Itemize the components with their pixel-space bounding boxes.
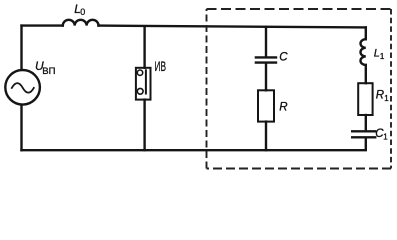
wire: R branch lower — [265, 122, 267, 151]
resistor R — [258, 90, 274, 121]
wire: top bus left segment — [22, 24, 63, 26]
capacitor C bottom plate — [256, 61, 276, 63]
svg-text:ВП: ВП — [42, 66, 55, 77]
wire: IV branch upper — [143, 26, 145, 68]
capacitor C top plate — [256, 56, 276, 58]
resistor R1 — [358, 83, 372, 115]
wire: right branch corner — [365, 27, 367, 39]
dashed boundary box left — [206, 9, 208, 169]
spark device IV body — [136, 68, 151, 100]
wire: left side upper — [20, 26, 22, 70]
svg-text:1: 1 — [384, 94, 389, 103]
svg-text:R: R — [279, 101, 287, 113]
voltage source sine wave — [12, 83, 34, 93]
svg-text:C: C — [279, 51, 288, 63]
dashed boundary box top — [207, 8, 392, 10]
capacitor C1 top plate — [352, 130, 375, 132]
voltage source U_vp circle — [5, 70, 40, 105]
inductor L1 — [360, 39, 365, 65]
wire: C to R connector — [265, 64, 267, 91]
svg-text:1: 1 — [380, 52, 385, 61]
wire: top bus right segment — [99, 26, 366, 28]
spark device IV bottom contact — [137, 88, 143, 94]
wire: IV branch lower — [143, 100, 145, 151]
svg-text:0: 0 — [80, 7, 85, 17]
spark device IV bridge wire — [145, 70, 147, 93]
wire: left side lower — [20, 105, 22, 150]
svg-text:ИВ: ИВ — [155, 59, 167, 74]
spark device IV top contact — [137, 70, 142, 75]
dashed boundary box bottom — [207, 168, 392, 170]
capacitor C1 bottom plate — [352, 136, 375, 138]
wire: C1 lower — [365, 138, 367, 149]
dashed boundary box right — [390, 9, 392, 169]
svg-text:R: R — [376, 90, 384, 102]
wire: L1 to R1 — [365, 65, 367, 83]
wire: R1 to C1 — [365, 115, 367, 130]
wire: bottom bus — [22, 149, 366, 151]
svg-text:1: 1 — [383, 132, 388, 141]
inductor L0 — [63, 20, 99, 26]
wire: C branch upper — [265, 27, 267, 57]
